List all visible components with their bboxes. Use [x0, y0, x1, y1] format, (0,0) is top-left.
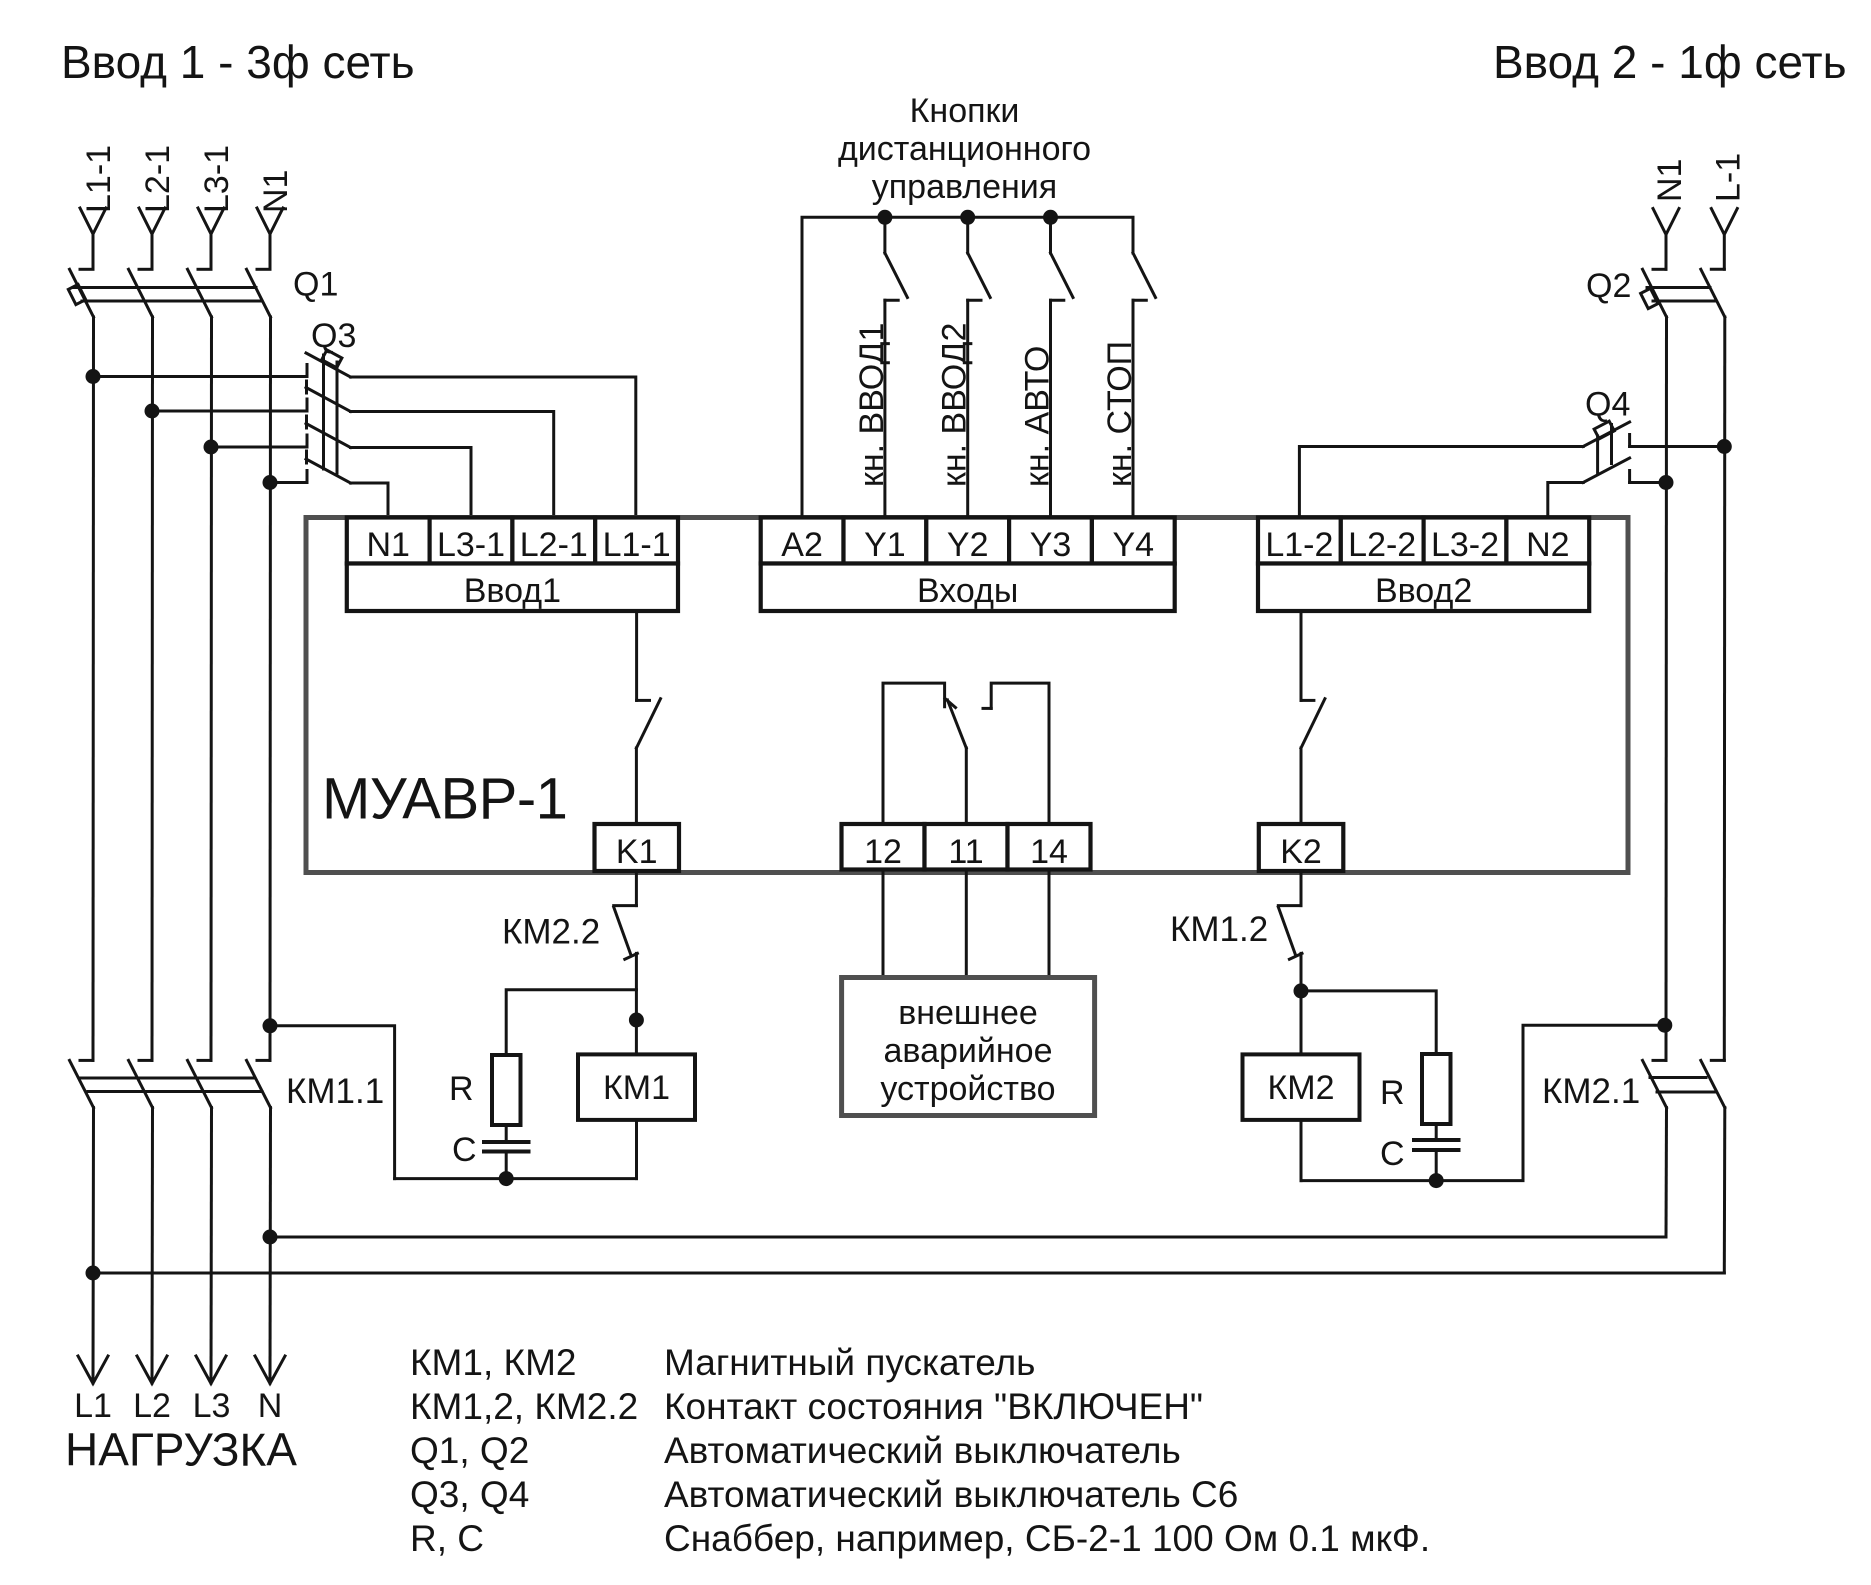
svg-text:КМ1.1: КМ1.1 [286, 1072, 384, 1111]
svg-text:K2: K2 [1280, 833, 1322, 871]
relay K1 contact upper lead [635, 611, 638, 700]
wire Q4 pole 2 to N1-2 [1630, 481, 1666, 484]
wire Q3 pole 4 to terminal N1 [351, 483, 389, 518]
svg-text:КМ1,2, КМ2.2: КМ1,2, КМ2.2 [410, 1386, 638, 1427]
svg-text:L-1: L-1 [1709, 153, 1747, 202]
relay changeover NC tick [945, 699, 956, 708]
node L1-1 supply arrow [80, 208, 106, 269]
svg-text:Y4: Y4 [1113, 526, 1155, 564]
load arrow L2 [137, 1356, 167, 1384]
terminal N2 [1506, 518, 1589, 564]
svg-text:Y2: Y2 [947, 526, 989, 564]
breaker Q4 pole 1 blade [1583, 422, 1629, 447]
wire terminal 12 to external device [882, 870, 885, 979]
relay changeover stub 12 [883, 683, 945, 824]
node junction L1-1 / Q3 [86, 369, 101, 384]
terminal Y1 [844, 518, 927, 564]
breaker Q4 pole 2 blade [1583, 458, 1629, 483]
svg-text:14: 14 [1030, 833, 1068, 871]
contact KM2.2 upper lead [635, 871, 638, 906]
relay K2 blade [1301, 699, 1325, 748]
wire N1 branch to Q3 pole 4 [270, 481, 307, 484]
terminal K2 [1259, 824, 1344, 871]
wire L1 bus to KM2.1 [93, 1272, 1724, 1275]
node N1-2 branch to KM2 rail [1657, 1018, 1672, 1033]
breaker Q1 pole 4 blade [247, 269, 271, 317]
breaker Q2 pole 1 blade [1643, 269, 1667, 317]
node bus / button VVOD2 [960, 210, 975, 225]
wire L2 to load [151, 1108, 155, 1383]
contactor KM1.1 linkage bar [79, 1078, 262, 1092]
load arrow L1 [78, 1356, 108, 1384]
wire C1 to bottom rail [505, 1152, 508, 1179]
svg-text:N2: N2 [1526, 526, 1569, 564]
breaker Q4 linkage bar [1598, 425, 1612, 474]
contact KM1.2 upper lead [1300, 871, 1303, 906]
svg-text:11: 11 [948, 833, 983, 871]
node junction N1 / Q3 [263, 475, 278, 490]
node L-1 / Q4 junction [1717, 439, 1732, 454]
svg-text:K1: K1 [616, 833, 658, 871]
node C1 / rail junction [499, 1171, 514, 1186]
svg-text:кн. ВВОД2: кн. ВВОД2 [936, 323, 974, 487]
breaker Q3 handle [322, 350, 342, 368]
wire terminal 11 to external device [965, 870, 968, 979]
svg-text:Контакт состояния "ВКЛЮЧЕН": Контакт состояния "ВКЛЮЧЕН" [664, 1386, 1203, 1427]
svg-text:Ввод1: Ввод1 [464, 572, 561, 610]
contactor KM2.1 pole 1 fixed contact [1653, 1059, 1666, 1062]
contact KM1.2 upper tick [1278, 904, 1301, 907]
svg-text:кн. ВВОД1: кн. ВВОД1 [853, 323, 891, 487]
wire L3-1 branch to Q3 pole 3 [211, 446, 307, 449]
svg-text:L2: L2 [133, 1387, 171, 1425]
node junction L2-1 / Q3 [145, 404, 160, 419]
node N1-2 / Q4 junction [1659, 475, 1674, 490]
svg-text:L2-1: L2-1 [520, 526, 588, 564]
svg-text:кн. АВТО: кн. АВТО [1019, 346, 1057, 487]
breaker Q1 handle [68, 284, 85, 304]
contactor KM1.1 pole 1 blade [70, 1060, 94, 1107]
contact KM2.2 blade [614, 907, 632, 956]
relay changeover blade [948, 700, 967, 748]
relay K2 fixed contact [1301, 699, 1314, 702]
breaker Q2 pole 2 blade [1701, 269, 1725, 317]
svg-text:L3-1: L3-1 [437, 526, 505, 564]
contactor KM2.1 linkage bar [1650, 1078, 1716, 1093]
wire KM1 circuit bottom rail [395, 1177, 637, 1180]
svg-text:C: C [452, 1131, 477, 1169]
button AVTO fixed contact [1051, 299, 1064, 302]
breaker Q1 linkage bar [74, 288, 261, 302]
svg-text:12: 12 [864, 833, 902, 871]
svg-text:L1: L1 [74, 1387, 112, 1425]
relay changeover common lead 11 [965, 748, 968, 824]
wire KM2.1 pole 1 to N bus [1665, 1108, 1669, 1237]
svg-text:Q3, Q4: Q3, Q4 [410, 1474, 529, 1515]
wire N1 vertical [269, 317, 273, 1060]
svg-text:КМ1, КМ2: КМ1, КМ2 [410, 1342, 576, 1383]
svg-text:КМ2.1: КМ2.1 [1542, 1072, 1640, 1111]
contactor KM1.1 pole 4 fixed contact [257, 1059, 270, 1062]
terminal L2-1 [512, 518, 595, 564]
terminal Y2 [926, 518, 1009, 564]
wire KM2.1 pole 2 to L1 bus [1723, 1108, 1727, 1273]
breaker Q1 pole 3 blade [188, 269, 212, 317]
wire Q3 pole 1 to terminal L1-1 [351, 377, 636, 518]
svg-text:Входы: Входы [917, 572, 1018, 610]
button VVOD2 upper lead [966, 217, 969, 253]
contactor KM1.1 pole 2 blade [129, 1060, 153, 1107]
breaker Q2 handle [1641, 288, 1658, 308]
svg-text:R: R [449, 1070, 474, 1108]
svg-text:Y1: Y1 [864, 526, 906, 564]
coil KM2 [1243, 1054, 1360, 1120]
breaker Q3 pole 4 fixed contact [306, 471, 309, 483]
node N / KM2.1 bus junction [263, 1230, 278, 1245]
terminal L3-1 [430, 518, 513, 564]
relay K1 fixed contact [637, 699, 650, 702]
wire L2-1 branch to Q3 pole 2 [152, 410, 307, 413]
wire Q3 pole 3 to terminal L3-1 [351, 448, 472, 518]
svg-text:Q3: Q3 [311, 317, 356, 355]
terminal L2-2 [1341, 518, 1424, 564]
svg-text:МУАВР-1: МУАВР-1 [322, 767, 567, 832]
breaker Q3 pole 3 blade [306, 424, 351, 448]
wire KM2 coil to rail [1300, 1120, 1303, 1181]
button STOP blade [1133, 253, 1156, 298]
svg-text:Y3: Y3 [1030, 526, 1072, 564]
wire terminal N2 to Q4 pole 2 [1548, 483, 1583, 518]
svg-text:L1-1: L1-1 [603, 526, 671, 564]
breaker Q4 handle [1594, 421, 1614, 439]
wire L-1 vertical [1723, 317, 1727, 1060]
breaker Q3 pole 2 fixed contact [306, 399, 309, 411]
breaker Q3 pole 1 fixed contact [306, 365, 309, 377]
wire C2 to bottom rail [1435, 1150, 1438, 1181]
svg-text:Ввод2: Ввод2 [1375, 572, 1472, 610]
svg-text:аварийное: аварийное [884, 1032, 1053, 1070]
relay changeover NO fixed contact [983, 707, 991, 710]
breaker Q3 linkage bar [324, 355, 338, 473]
svg-text:Ввод 2 - 1ф сеть: Ввод 2 - 1ф сеть [1493, 36, 1847, 88]
wire N1-2 vertical [1665, 317, 1669, 1060]
svg-text:L3-1: L3-1 [198, 145, 236, 213]
wire KM1 coil to rail [635, 1120, 638, 1179]
wire L1-1 vertical [92, 317, 96, 1060]
terminal K1 [595, 824, 680, 871]
svg-text:внешнее: внешнее [898, 994, 1038, 1032]
svg-text:Q1, Q2: Q1, Q2 [410, 1430, 529, 1471]
wire button VVOD2 to terminal Y2 [966, 300, 969, 517]
svg-text:L2-1: L2-1 [139, 145, 177, 213]
breaker Q2 pole 2 fixed contact [1711, 268, 1724, 271]
node KM2 coil / snubber junction [1294, 983, 1309, 998]
breaker Q3 interlock dashes [305, 381, 308, 463]
terminal Y3 [1009, 518, 1092, 564]
svg-text:Магнитный пускатель: Магнитный пускатель [664, 1342, 1035, 1383]
svg-text:L3-2: L3-2 [1431, 526, 1499, 564]
contact KM2.2 NC cross tick [625, 953, 638, 959]
wire Q4 pole 1 to L-1 [1630, 445, 1725, 448]
terminal N1 (Vvod1) [347, 518, 430, 564]
contactor KM2.1 pole 2 fixed contact [1711, 1059, 1724, 1062]
svg-text:КМ2.2: КМ2.2 [502, 913, 600, 952]
breaker Q2 pole 1 fixed contact [1653, 268, 1666, 271]
svg-text:N1: N1 [257, 170, 295, 213]
svg-text:НАГРУЗКА: НАГРУЗКА [65, 1424, 297, 1476]
breaker Q1 pole 2 fixed contact [139, 268, 152, 271]
node bus / button AVTO [1043, 210, 1058, 225]
button VVOD1 fixed contact [885, 299, 898, 302]
relay K2 lower lead [1300, 748, 1303, 824]
relay K1 blade [636, 699, 660, 748]
node junction N1 / KM1 coil branch [263, 1018, 278, 1033]
terminal Y4 [1092, 518, 1175, 564]
wire snubber branch R2 [1301, 991, 1436, 1054]
svg-text:N1: N1 [366, 526, 409, 564]
relay K1 lower lead [635, 748, 638, 824]
wire L3 to load [210, 1108, 214, 1383]
coil KM1 [578, 1054, 695, 1120]
contactor KM2.1 pole 1 blade [1643, 1060, 1667, 1107]
relay K2 contact upper lead [1300, 611, 1303, 700]
terminal L1-1 [595, 518, 678, 564]
node L3-1 supply arrow [198, 208, 224, 269]
wire L1-1 branch to Q3 pole 1 [93, 375, 307, 378]
wire Q3 pole 2 to terminal L2-1 [351, 412, 554, 518]
node L2-1 supply arrow [139, 208, 165, 269]
button VVOD2 fixed contact [968, 299, 981, 302]
wire snubber branch R1 [506, 990, 636, 1055]
contact KM2.2 lower lead [635, 953, 638, 1054]
node L1 / KM2.1 bus junction [86, 1266, 101, 1281]
breaker Q3 pole 3 fixed contact [306, 435, 309, 447]
terminal 14 [1008, 824, 1091, 870]
terminal A2 [761, 518, 844, 564]
wire button AVTO to terminal Y3 [1049, 300, 1052, 517]
terminal group label Vvod1 [347, 564, 678, 612]
breaker Q1 pole 3 fixed contact [198, 268, 211, 271]
svg-text:кн. СТОП: кн. СТОП [1101, 341, 1139, 487]
wire buttons common bus from A2 [802, 217, 1133, 517]
contactor KM1.1 pole 2 fixed contact [139, 1059, 152, 1062]
breaker Q3 pole 1 blade [306, 353, 351, 377]
contactor KM1.1 pole 4 blade [247, 1060, 271, 1107]
contactor KM1.1 pole 1 fixed contact [80, 1059, 93, 1062]
capacitor C1 [484, 1142, 529, 1152]
terminal group label Vhody [761, 564, 1175, 612]
node bus / button VVOD1 [877, 210, 892, 225]
wire terminal 14 to external device [1048, 870, 1051, 979]
svg-text:L2-2: L2-2 [1348, 526, 1416, 564]
svg-text:Автоматический выключатель: Автоматический выключатель [664, 1430, 1181, 1471]
svg-text:устройство: устройство [880, 1070, 1055, 1108]
button VVOD1 blade [885, 253, 908, 298]
node N1 (input 2) supply arrow [1653, 209, 1679, 270]
wire N branch to KM1 rail [270, 1026, 395, 1179]
terminal 11 [925, 824, 1008, 870]
node L-1 supply arrow [1711, 209, 1737, 270]
svg-text:R: R [1380, 1074, 1405, 1112]
svg-text:Ввод 1 - 3ф сеть: Ввод 1 - 3ф сеть [61, 36, 415, 88]
breaker Q1 pole 1 blade [70, 269, 94, 317]
svg-text:R, C: R, C [410, 1518, 484, 1559]
svg-text:КМ2: КМ2 [1267, 1069, 1334, 1107]
svg-text:C: C [1380, 1135, 1405, 1173]
contact KM1.2 blade [1278, 907, 1296, 956]
terminal 12 [842, 824, 925, 870]
button VVOD2 blade [968, 253, 991, 298]
svg-text:L1-1: L1-1 [80, 145, 118, 213]
contactor KM1.1 pole 3 blade [188, 1060, 212, 1107]
wire L1 to load [92, 1108, 96, 1383]
svg-text:управления: управления [872, 168, 1057, 206]
svg-text:N: N [258, 1387, 283, 1425]
load arrow N [255, 1356, 285, 1384]
resistor R1 [492, 1055, 521, 1125]
contact KM1.2 lower lead [1300, 953, 1303, 1054]
wire button VVOD1 to terminal Y1 [883, 300, 886, 517]
svg-text:L3: L3 [193, 1387, 231, 1425]
contactor KM2.1 pole 2 blade [1701, 1060, 1725, 1107]
breaker Q2 linkage bar [1647, 288, 1715, 302]
svg-text:Кнопки: Кнопки [910, 92, 1020, 130]
wire N to load [269, 1108, 273, 1383]
svg-text:N1: N1 [1651, 159, 1689, 202]
breaker Q1 pole 2 blade [129, 269, 153, 317]
breaker Q1 pole 1 fixed contact [80, 268, 93, 271]
wire L3-1 vertical [210, 317, 214, 1060]
svg-text:L1-2: L1-2 [1265, 526, 1333, 564]
wire KM2 circuit bottom rail [1301, 1025, 1665, 1180]
wire button STOP to terminal Y4 [1132, 300, 1135, 517]
button STOP fixed contact [1133, 299, 1146, 302]
wire N bus to KM2.1 [270, 1236, 1666, 1239]
terminal L3-2 [1424, 518, 1507, 564]
svg-text:A2: A2 [781, 526, 823, 564]
breaker Q1 pole 4 fixed contact [257, 268, 270, 271]
capacitor C2 [1414, 1140, 1459, 1150]
relay changeover stub 14 [991, 683, 1049, 824]
wire R2 to C2 [1435, 1124, 1438, 1140]
resistor R2 [1422, 1054, 1451, 1124]
load arrow L3 [196, 1356, 226, 1384]
device MUAVR-1 enclosure box [306, 518, 1628, 873]
contact KM2.2 upper tick [614, 904, 637, 907]
node KM1 coil / snubber junction [629, 1013, 644, 1028]
button AVTO blade [1051, 253, 1074, 298]
svg-text:Q4: Q4 [1585, 386, 1630, 424]
terminal L1-2 [1258, 518, 1341, 564]
svg-text:КМ1.2: КМ1.2 [1170, 910, 1268, 949]
node C2 / rail junction [1429, 1173, 1444, 1188]
contactor KM1.1 pole 3 fixed contact [198, 1059, 211, 1062]
breaker Q3 pole 4 blade [306, 459, 351, 483]
svg-text:Автоматический выключатель С6: Автоматический выключатель С6 [664, 1474, 1238, 1515]
wire R1 to C1 [505, 1125, 508, 1142]
terminal group label Vvod2 [1258, 564, 1589, 612]
button VVOD1 upper lead [883, 217, 886, 253]
button AVTO upper lead [1049, 217, 1052, 253]
wire terminal L1-2 to Q4 pole 1 [1299, 447, 1583, 518]
external emergency device box [842, 978, 1095, 1116]
svg-text:Q2: Q2 [1586, 267, 1631, 305]
breaker Q3 pole 2 blade [306, 388, 351, 412]
wire L2-1 vertical [151, 317, 155, 1060]
svg-text:Q1: Q1 [293, 266, 338, 304]
breaker Q4 pole 2 fixed contact [1628, 471, 1631, 483]
svg-text:Снаббер, например, СБ-2-1 100: Снаббер, например, СБ-2-1 100 Ом 0.1 мкФ… [664, 1518, 1430, 1559]
svg-text:дистанционного: дистанционного [838, 130, 1091, 168]
node junction L3-1 / Q3 [204, 440, 219, 455]
node N1 supply arrow [257, 208, 283, 269]
contact KM1.2 NC cross tick [1289, 953, 1302, 959]
svg-text:КМ1: КМ1 [603, 1069, 670, 1107]
breaker Q4 pole 1 fixed contact [1628, 435, 1631, 447]
